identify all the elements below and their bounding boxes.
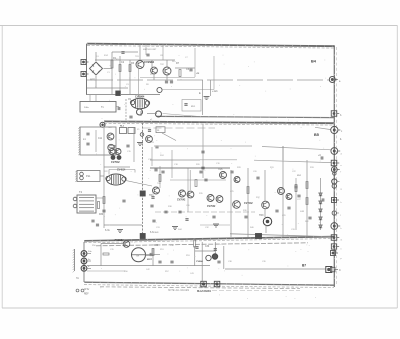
svg-text:+C: +C (318, 154, 321, 157)
svg-text:CV984: CV984 (196, 260, 203, 263)
svg-text:TR6: TR6 (218, 168, 223, 171)
svg-text:CV2984: CV2984 (115, 239, 125, 242)
svg-text:CV7042: CV7042 (207, 205, 216, 208)
svg-text:7A: 7A (76, 277, 79, 280)
svg-text:CV7042: CV7042 (244, 202, 253, 205)
svg-text:d: d (341, 154, 342, 156)
svg-text:g: g (341, 189, 342, 191)
svg-text:n: n (341, 249, 342, 251)
svg-text:CV2984: CV2984 (135, 95, 145, 99)
svg-text:MR1: MR1 (90, 78, 96, 82)
svg-text:TR4: TR4 (149, 194, 154, 197)
svg-text:CV7042: CV7042 (111, 161, 120, 164)
svg-text:R30: R30 (99, 214, 104, 216)
svg-text:E: E (199, 91, 201, 95)
svg-text:k: k (341, 228, 342, 230)
svg-text:R40: R40 (154, 245, 159, 247)
svg-text:+E: +E (196, 71, 200, 75)
svg-text:6.3v: 6.3v (105, 229, 110, 232)
svg-text:METER UNIT: METER UNIT (143, 49, 157, 51)
svg-text:+12v: +12v (212, 89, 218, 93)
svg-text:6.3v a.c.: 6.3v a.c. (150, 231, 159, 234)
svg-text:FS1: FS1 (86, 175, 91, 178)
svg-text:REF: REF (84, 294, 89, 296)
svg-text:C: C (339, 269, 341, 272)
svg-text:MOT: MOT (147, 259, 153, 261)
svg-text:CV7042: CV7042 (177, 199, 186, 202)
svg-text:B7: B7 (302, 264, 306, 268)
svg-text:RLA/1 RLB/1: RLA/1 RLB/1 (197, 290, 212, 293)
svg-text:TR9: TR9 (259, 214, 264, 217)
svg-text:NOTE: ALL VALUES: NOTE: ALL VALUES (168, 289, 190, 292)
svg-text:t2 5v: t2 5v (84, 288, 90, 291)
svg-text:CV4014: CV4014 (117, 169, 126, 172)
svg-text:C30: C30 (205, 246, 210, 248)
svg-text:B5: B5 (314, 133, 319, 137)
svg-text:CV2984: CV2984 (144, 60, 155, 64)
svg-text:h: h (341, 202, 342, 204)
